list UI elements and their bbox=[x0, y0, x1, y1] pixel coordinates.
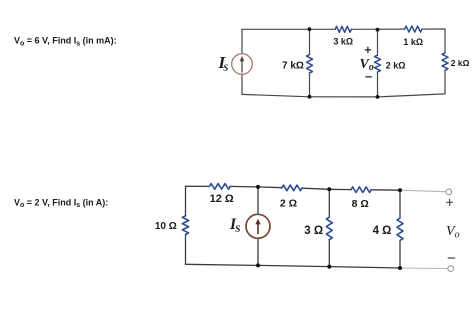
svg-text:Vo: Vo bbox=[446, 224, 460, 240]
svg-text:2 kΩ: 2 kΩ bbox=[386, 60, 406, 70]
svg-text:8 Ω: 8 Ω bbox=[352, 198, 369, 210]
svg-text:1 kΩ: 1 kΩ bbox=[403, 37, 423, 47]
svg-text:4 Ω: 4 Ω bbox=[373, 225, 392, 237]
svg-text:3 kΩ: 3 kΩ bbox=[333, 37, 353, 47]
svg-text:2 Ω: 2 Ω bbox=[280, 198, 297, 210]
svg-text:Vo: Vo bbox=[360, 57, 374, 73]
svg-text:S: S bbox=[235, 225, 240, 235]
svg-text:3 Ω: 3 Ω bbox=[304, 225, 323, 237]
svg-text:7 kΩ: 7 kΩ bbox=[282, 60, 304, 71]
svg-text:Vo = 2 V, Find Is (in A):: Vo = 2 V, Find Is (in A): bbox=[14, 197, 108, 209]
svg-text:S: S bbox=[223, 63, 228, 73]
svg-text:Vo = 6 V, Find Is (in mA):: Vo = 6 V, Find Is (in mA): bbox=[14, 36, 117, 48]
svg-text:12 Ω: 12 Ω bbox=[210, 193, 234, 205]
svg-text:10 Ω: 10 Ω bbox=[155, 221, 177, 232]
svg-text:2 kΩ: 2 kΩ bbox=[451, 58, 470, 68]
